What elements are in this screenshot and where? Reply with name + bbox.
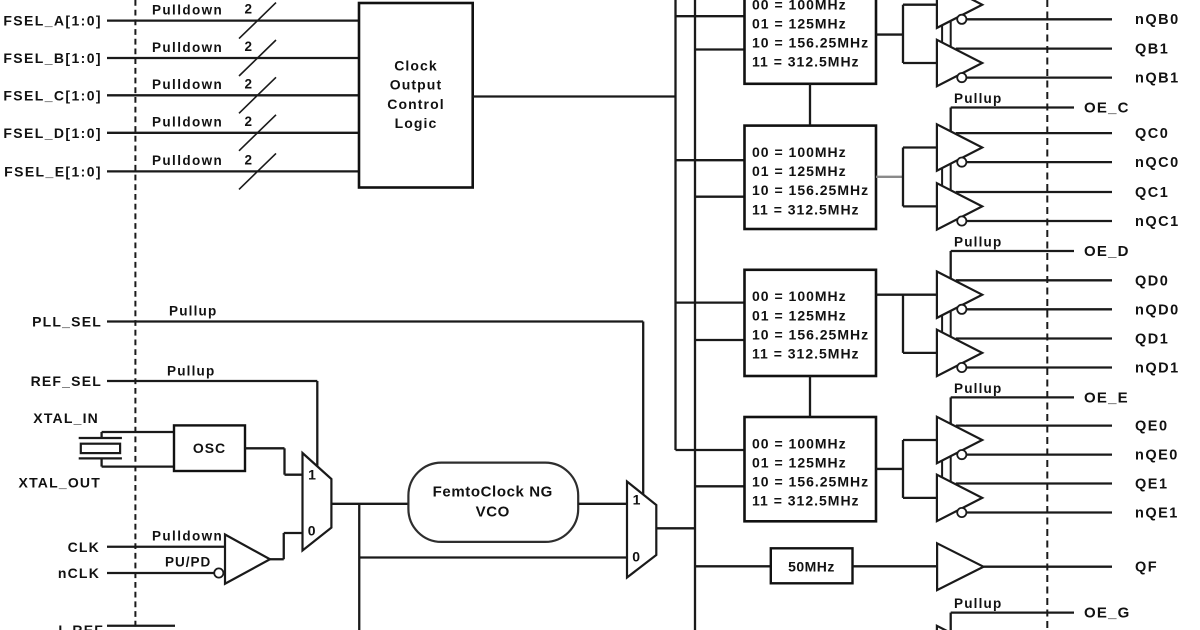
bus A branch to divider box (676, 449, 745, 451)
svg-text:nQE0: nQE0 (1135, 448, 1179, 464)
svg-text:FSEL_D[1:0]: FSEL_D[1:0] (3, 125, 102, 141)
wire I_REF (107, 625, 175, 627)
svg-text:Control: Control (387, 96, 444, 112)
divider box D (frequency select table) (745, 270, 877, 376)
wire input to driver E1 (903, 497, 937, 499)
svg-text:FSEL_C[1:0]: FSEL_C[1:0] (3, 87, 102, 103)
svg-text:QB1: QB1 (1135, 42, 1169, 58)
enable chain verticals between E0 and E1 (941, 461, 943, 478)
divider box C (frequency select table) (745, 126, 877, 229)
svg-text:QE0: QE0 (1135, 419, 1169, 435)
block: FemtoClock NG VCO (408, 463, 578, 542)
wire divider D output (876, 294, 903, 296)
svg-text:QC1: QC1 (1135, 185, 1169, 201)
svg-text:REF_SEL: REF_SEL (31, 373, 102, 389)
bus width 2 slash on FSEL_A[1:0] (239, 3, 276, 39)
wire input to driver D0 (903, 294, 937, 296)
svg-text:01 = 125MHz: 01 = 125MHz (752, 163, 847, 179)
svg-text:OE_E: OE_E (1084, 389, 1129, 406)
bus width 2 slash on FSEL_C[1:0] (239, 77, 276, 113)
driver buffer E1 (937, 475, 982, 521)
svg-text:00 = 100MHz: 00 = 100MHz (752, 435, 847, 451)
driver buffer D0 (937, 272, 982, 318)
svg-text:00 = 100MHz: 00 = 100MHz (752, 288, 847, 304)
svg-text:2: 2 (245, 39, 253, 54)
inversion bubble on nCLK input (214, 568, 223, 577)
wire input to driver C0 (903, 146, 937, 148)
wire divider B output split vertical (902, 5, 904, 63)
driver buffer G0 (cut at bottom) (937, 626, 982, 630)
svg-text:nQB1: nQB1 (1135, 71, 1180, 87)
svg-text:2: 2 (245, 2, 253, 17)
enable chain verticals between C0 and C1 (941, 168, 943, 186)
svg-text:OE_D: OE_D (1084, 243, 1130, 260)
wire CLK to input buffer (107, 546, 225, 548)
wire OE_C (951, 106, 1074, 108)
svg-text:FemtoClock NG: FemtoClock NG (433, 484, 553, 501)
wire control logic output to OE bus (473, 95, 676, 97)
enable chain verticals between D0 and D1 (941, 315, 943, 332)
bus B vertical (VCO clock distribution) (694, 0, 696, 630)
bus A branch to divider box (676, 159, 745, 161)
wire connector divider B to C (809, 84, 811, 126)
wire OE_G enable vertical (950, 613, 952, 630)
chip boundary dashed line (right) (1046, 0, 1048, 630)
QF output buffer (937, 543, 983, 590)
svg-text:OE_C: OE_C (1084, 100, 1130, 117)
block: Clock Output Control Logic (359, 3, 473, 188)
inversion bubble + wire output nQB1 (957, 73, 966, 82)
wire FSEL_C[1:0] to control logic (107, 94, 359, 96)
svg-text:QC0: QC0 (1135, 126, 1169, 142)
svg-text:00 = 100MHz: 00 = 100MHz (752, 0, 847, 12)
svg-text:Pulldown: Pulldown (152, 2, 223, 17)
svg-text:XTAL_OUT: XTAL_OUT (19, 475, 101, 491)
svg-text:FSEL_B[1:0]: FSEL_B[1:0] (3, 50, 102, 66)
block: 50MHz divider (771, 548, 853, 583)
wire input to driver D1 (903, 352, 937, 354)
bus A branch to divider box (676, 15, 745, 17)
svg-text:50MHz: 50MHz (788, 558, 835, 574)
block: OSC (174, 425, 245, 471)
wire connector divider D to E (809, 376, 811, 417)
mux2 (PLL select) (627, 482, 656, 578)
wire OE_E enable vertical (950, 397, 952, 424)
bus B branch to divider box (695, 485, 745, 487)
svg-text:Pullup: Pullup (954, 381, 1002, 396)
wire PLL_SEL to mux2 select (107, 320, 643, 322)
wire output QB1 (956, 47, 1112, 49)
wire OE_D (951, 250, 1074, 252)
wire FSEL_D[1:0] to control logic (107, 132, 359, 134)
wire divider C output (876, 176, 903, 178)
wire output QE0 (956, 424, 1112, 426)
wire divider E output (876, 468, 903, 470)
svg-text:Pullup: Pullup (167, 364, 215, 379)
bus width 2 slash on FSEL_D[1:0] (239, 115, 276, 151)
svg-text:Pullup: Pullup (954, 596, 1002, 611)
wire FSEL_B[1:0] to control logic (107, 57, 359, 59)
svg-text:0: 0 (632, 549, 640, 565)
svg-text:nQE1: nQE1 (1135, 506, 1179, 522)
svg-text:Logic: Logic (395, 115, 438, 131)
bus width 2 slash on FSEL_E[1:0] (239, 153, 276, 189)
chip boundary dashed line (left) (134, 0, 136, 630)
svg-text:Pulldown: Pulldown (152, 115, 223, 130)
svg-text:nQC0: nQC0 (1135, 155, 1180, 171)
wire output QE1 (956, 482, 1112, 484)
svg-text:11 = 312.5MHz: 11 = 312.5MHz (752, 54, 860, 70)
wire clock bus to 50MHz divider (695, 565, 771, 567)
inversion bubble + wire output nQC0 (957, 158, 966, 167)
driver buffer C1 (937, 183, 982, 229)
driver buffer C0 (937, 124, 982, 170)
wire nCLK to input buffer (107, 572, 214, 574)
svg-text:nQD1: nQD1 (1135, 361, 1180, 377)
wire input to driver B0 (903, 4, 937, 6)
mux1 (reference select) (303, 453, 332, 551)
wire OE_G (951, 611, 1074, 613)
svg-text:Output: Output (390, 77, 442, 93)
bus width 2 slash on FSEL_B[1:0] (239, 40, 276, 76)
svg-text:10 = 156.25MHz: 10 = 156.25MHz (752, 326, 869, 342)
svg-text:OE_G: OE_G (1084, 605, 1130, 622)
svg-text:QF: QF (1135, 560, 1158, 576)
svg-text:10 = 156.25MHz: 10 = 156.25MHz (752, 35, 869, 51)
svg-text:Pullup: Pullup (954, 235, 1002, 250)
bus B branch to divider box (695, 196, 745, 198)
svg-text:PU/PD: PU/PD (165, 555, 211, 570)
wire bypass to mux2 input 0 (359, 556, 627, 558)
inversion bubble + wire output nQC1 (957, 216, 966, 225)
wire input buffer to mux1 input 0 (270, 558, 284, 560)
wire REF_SEL to mux1 select (107, 380, 317, 382)
bus A vertical (output control) (674, 0, 676, 450)
svg-text:nQD0: nQD0 (1135, 302, 1180, 318)
svg-text:nQC1: nQC1 (1135, 214, 1180, 230)
wire divider B output (876, 33, 903, 35)
svg-text:nCLK: nCLK (58, 565, 100, 581)
bus B branch to divider box (695, 339, 745, 341)
svg-text:Pullup: Pullup (954, 91, 1002, 106)
svg-text:QD0: QD0 (1135, 273, 1169, 289)
svg-text:01 = 125MHz: 01 = 125MHz (752, 307, 847, 323)
inversion bubble + wire output nQE0 (957, 450, 966, 459)
svg-text:11 = 312.5MHz: 11 = 312.5MHz (752, 493, 860, 509)
svg-text:1: 1 (308, 467, 316, 483)
svg-text:QD1: QD1 (1135, 332, 1169, 348)
svg-text:1: 1 (633, 492, 641, 508)
svg-text:2: 2 (245, 114, 253, 129)
wire 50MHz divider to QF buffer (853, 565, 938, 567)
svg-text:01 = 125MHz: 01 = 125MHz (752, 16, 847, 32)
svg-text:00 = 100MHz: 00 = 100MHz (752, 144, 847, 160)
inversion bubble + wire output nQD1 (957, 363, 966, 372)
wire output QF (984, 566, 1113, 568)
svg-text:nQB0: nQB0 (1135, 12, 1180, 28)
svg-text:Pulldown: Pulldown (152, 153, 223, 168)
svg-text:Pulldown: Pulldown (152, 40, 223, 55)
wire input to driver B1 (903, 62, 937, 64)
differential input buffer (225, 535, 270, 584)
driver buffer B0 (937, 0, 982, 28)
wire XTAL_IN to OSC (100, 432, 102, 438)
svg-text:Clock: Clock (394, 58, 438, 74)
wire output QD1 (956, 337, 1112, 339)
crystal symbol (79, 437, 122, 439)
svg-text:VCO: VCO (476, 504, 510, 521)
divider box B (frequency select table) (745, 0, 877, 84)
svg-text:QE1: QE1 (1135, 477, 1169, 493)
driver buffer D1 (937, 330, 982, 376)
svg-text:Pulldown: Pulldown (152, 77, 223, 92)
wire divider D output split vertical (902, 295, 904, 353)
svg-text:Pullup: Pullup (169, 304, 217, 319)
wire mux1 output to VCO (331, 503, 408, 505)
svg-text:10 = 156.25MHz: 10 = 156.25MHz (752, 182, 869, 198)
svg-text:11 = 312.5MHz: 11 = 312.5MHz (752, 346, 860, 362)
wire OSC output to mux1 input 1 (245, 447, 285, 449)
svg-text:2: 2 (245, 76, 253, 91)
inversion bubble + wire output nQB0 (957, 15, 966, 24)
wire FSEL_A[1:0] to control logic (107, 19, 359, 21)
svg-text:0: 0 (308, 522, 316, 538)
wire divider E output split vertical (902, 440, 904, 498)
wire divider C output split vertical (902, 148, 904, 207)
enable chain verticals between B0 and B1 (941, 25, 943, 42)
divider box E (frequency select table) (745, 417, 877, 521)
svg-text:I_REF: I_REF (58, 622, 104, 630)
svg-text:OSC: OSC (193, 440, 226, 456)
svg-text:10 = 156.25MHz: 10 = 156.25MHz (752, 474, 869, 490)
svg-text:01 = 125MHz: 01 = 125MHz (752, 455, 847, 471)
wire output QC1 (956, 191, 1112, 193)
wire XTAL_OUT to OSC (100, 458, 102, 466)
wire input to driver C1 (903, 205, 937, 207)
wire input to driver E0 (903, 439, 937, 441)
inversion bubble + wire output nQD0 (957, 305, 966, 314)
svg-text:2: 2 (245, 152, 253, 167)
svg-text:FSEL_E[1:0]: FSEL_E[1:0] (4, 163, 102, 179)
wire VCO output to mux2 input 1 (578, 503, 627, 505)
wire FSEL_E[1:0] to control logic (107, 170, 359, 172)
svg-text:CLK: CLK (68, 539, 100, 555)
svg-text:XTAL_IN: XTAL_IN (33, 410, 99, 426)
wire mux2 output to clock bus (656, 527, 695, 529)
svg-text:11 = 312.5MHz: 11 = 312.5MHz (752, 201, 860, 217)
bus A branch to divider box (676, 301, 745, 303)
svg-text:PLL_SEL: PLL_SEL (32, 314, 102, 330)
bus B branch to divider box (695, 48, 745, 50)
svg-text:FSEL_A[1:0]: FSEL_A[1:0] (3, 13, 102, 29)
wire OE_D enable vertical (950, 251, 952, 279)
wire OE_C enable vertical (950, 108, 952, 132)
inversion bubble + wire output nQE1 (957, 508, 966, 517)
driver buffer B1 (937, 40, 982, 86)
driver buffer E0 (937, 417, 982, 463)
wire OE_E (951, 396, 1074, 398)
wire output QD0 (956, 279, 1112, 281)
svg-text:Pulldown: Pulldown (152, 529, 223, 544)
node: PLL bypass junction (358, 504, 360, 630)
wire output QC0 (956, 132, 1112, 134)
